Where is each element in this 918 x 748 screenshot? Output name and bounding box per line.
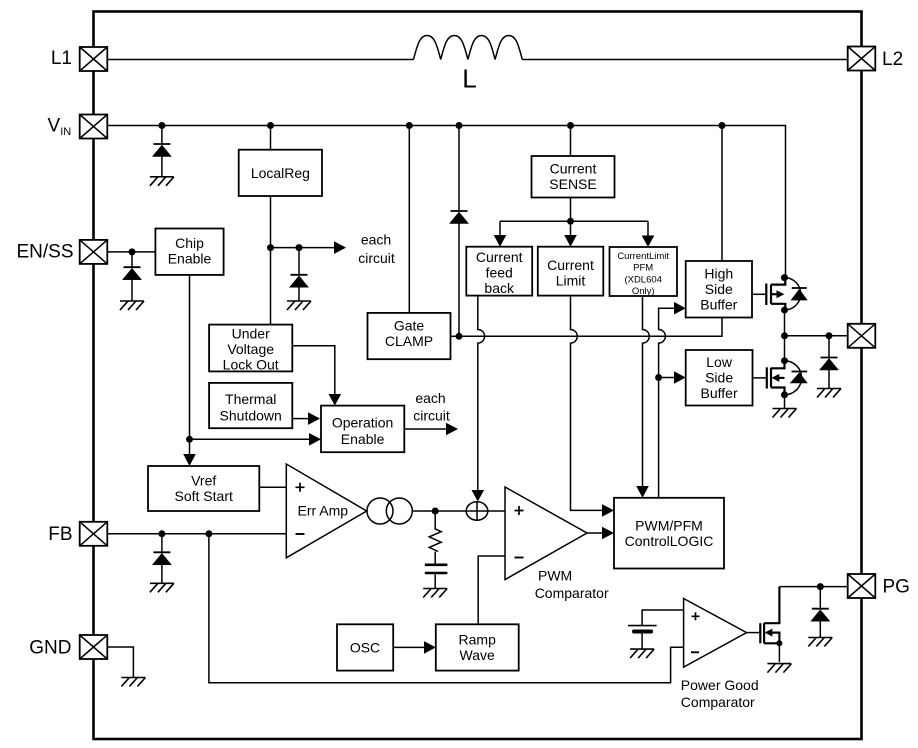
wire D7 to ground	[819, 621, 821, 637]
pin FB	[80, 522, 108, 546]
node EN	[129, 248, 136, 255]
svg-text:SENSE: SENSE	[549, 176, 596, 192]
node VIN-e	[567, 122, 574, 129]
arrow into High Side Buffer	[674, 302, 686, 315]
wire L1 to inductor	[108, 59, 414, 61]
diode D4 boot	[450, 211, 469, 224]
capacitor C1	[425, 565, 448, 573]
node localreg-out	[267, 244, 274, 251]
svg-text:Thermal: Thermal	[225, 391, 276, 407]
transistor Q1 high side	[766, 278, 785, 310]
wire FB sense run	[209, 534, 684, 683]
svg-text:Wave: Wave	[460, 647, 495, 663]
block OSC	[337, 624, 393, 670]
wire CurrentLimit PFM to logic top (hops boot rail)	[643, 296, 650, 486]
arrow into Current feedback	[494, 235, 507, 247]
block High Side Buffer	[686, 261, 752, 318]
svg-text:Buffer: Buffer	[700, 297, 737, 313]
ground G12	[808, 638, 832, 647]
summing node	[466, 502, 488, 520]
arrow into Vref	[183, 454, 196, 466]
wire VIN to HSB top	[721, 126, 723, 262]
svg-text:PG: PG	[883, 577, 910, 598]
wire Current SENSE down	[570, 198, 572, 222]
block PWM/PFM ControlLOGIC	[614, 498, 724, 569]
svg-text:Enable: Enable	[168, 251, 212, 267]
ground G1	[150, 177, 174, 186]
resistor R1	[429, 511, 441, 564]
node chip-enable-branch	[186, 436, 193, 443]
svg-text:Comparator: Comparator	[681, 694, 755, 710]
wire VIN to LocalReg	[270, 126, 272, 150]
svg-text:L1: L1	[51, 48, 72, 69]
svg-text:PWM: PWM	[538, 568, 572, 584]
wire each-circuit feed	[271, 247, 335, 249]
ErrAmp minus	[296, 533, 305, 535]
Q1 source arrow	[777, 290, 785, 298]
ground G3	[120, 301, 144, 310]
wire Vref to ErrAmp plus	[259, 486, 286, 488]
svg-text:Chip: Chip	[175, 235, 204, 251]
wire VIN to Gate CLAMP	[408, 126, 410, 313]
node FB-a	[158, 530, 165, 537]
node Lx-esd	[826, 332, 833, 339]
wire D3 to ground	[131, 280, 133, 301]
node Lx	[781, 332, 788, 339]
wire LocalReg to UVLO	[270, 196, 272, 325]
wire Lx to pin	[785, 335, 848, 337]
svg-text:L: L	[462, 64, 476, 94]
PWM plus	[515, 506, 524, 515]
pin VIN	[80, 115, 108, 139]
arrow into Ramp Wave	[424, 641, 436, 654]
svg-text:Soft Start: Soft Start	[175, 488, 233, 504]
block Thermal Shutdown	[209, 383, 292, 428]
node sense-split	[567, 218, 574, 225]
wire EN ESD branch	[131, 252, 133, 267]
block LocalReg	[239, 150, 322, 196]
node VIN-f	[719, 122, 726, 129]
arrow each-circuit-2	[446, 423, 458, 436]
wire PWM minus to Ramp	[478, 556, 505, 624]
Q1 body diode arc	[785, 278, 801, 310]
ground G5	[817, 389, 841, 398]
svg-text:back: back	[484, 280, 515, 296]
wire summer to PWM comparator	[488, 510, 505, 512]
wire Current Limit to logic (hops boot rail)	[571, 296, 603, 511]
wire PG net	[779, 586, 847, 588]
block Current SENSE	[532, 156, 615, 198]
diode D5 Lx clamp	[820, 358, 839, 371]
arrow into Current Limit	[564, 235, 577, 247]
svg-text:Low: Low	[706, 354, 733, 370]
node localreg-esd	[296, 244, 303, 251]
ground G11	[767, 664, 791, 673]
node Q1 source	[781, 307, 788, 314]
svg-text:Current: Current	[476, 249, 523, 265]
wire CS out	[412, 510, 466, 512]
wire Chip Enable down	[189, 275, 191, 454]
svg-text:PFM: PFM	[633, 263, 653, 274]
wire HSB gate out	[752, 293, 766, 295]
ground G10	[630, 649, 654, 658]
diode D2 localreg clamp	[290, 275, 309, 288]
svg-text:(XDL604: (XDL604	[624, 274, 662, 285]
ground G8	[150, 583, 174, 592]
svg-text:Current: Current	[547, 257, 594, 273]
wire PG plus ref	[642, 610, 684, 626]
svg-text:feed: feed	[486, 265, 513, 281]
wire VIN ESD branch	[161, 126, 163, 145]
node Q1 drain	[781, 274, 788, 281]
svg-text:Operation: Operation	[332, 415, 393, 431]
PG minus	[691, 651, 699, 653]
diode D6 FB clamp	[152, 552, 171, 565]
svg-text:Only): Only)	[632, 286, 655, 297]
svg-text:Limit: Limit	[556, 272, 586, 288]
wire OSC to Ramp	[393, 646, 424, 648]
svg-text:circuit: circuit	[358, 250, 395, 266]
svg-text:Gate: Gate	[394, 318, 425, 334]
pin PG	[848, 574, 876, 598]
block CurrentLimit PFM	[610, 247, 678, 296]
wire FB ESD branch	[161, 534, 163, 553]
wire FB input	[108, 533, 287, 535]
svg-text:each: each	[415, 390, 445, 406]
wire boot rail to HSB	[459, 318, 722, 337]
current source CS1	[367, 498, 393, 524]
wire PG ESD branch	[819, 587, 821, 609]
svg-text:VIN: VIN	[48, 116, 72, 139]
arrow each-circuit-1	[334, 241, 346, 254]
Q1 body diode	[792, 287, 807, 289]
wire Lx ESD branch	[828, 336, 830, 358]
arrow PWM into logic	[602, 527, 614, 540]
op-amp ErrAmp	[286, 464, 366, 558]
wire D6 to ground	[161, 565, 163, 584]
pin Lx	[848, 324, 876, 348]
node VIN-a	[158, 122, 165, 129]
svg-text:Lock Out: Lock Out	[223, 356, 279, 372]
Q3 gate arrow	[765, 629, 773, 637]
wire sense distribution	[500, 221, 648, 235]
svg-text:Ramp: Ramp	[459, 631, 497, 647]
svg-text:High: High	[704, 266, 733, 282]
wire Q1 source to Lx node	[784, 310, 786, 336]
svg-text:Current: Current	[550, 161, 597, 177]
wire PWM output	[587, 532, 602, 534]
svg-text:LocalReg: LocalReg	[251, 165, 310, 181]
svg-text:Buffer: Buffer	[701, 385, 738, 401]
block Under Voltage Lock Out	[209, 325, 292, 372]
node VIN-b	[267, 122, 274, 129]
svg-text:each: each	[361, 232, 391, 248]
wire chip enable to Operation Enable	[190, 438, 310, 440]
block Ramp Wave	[436, 624, 519, 670]
svg-text:Comparator: Comparator	[535, 585, 609, 601]
svg-text:FB: FB	[48, 524, 72, 545]
inductor L	[414, 36, 523, 60]
wire cell to ground	[641, 634, 643, 649]
Q2 gate arrow	[772, 374, 780, 382]
Q2 body diode arc	[785, 361, 802, 395]
wire Q2 source to ground	[784, 395, 786, 409]
ground G9	[121, 678, 145, 687]
Q2 body diode	[792, 371, 808, 373]
wire C1 to ground	[434, 574, 436, 588]
svg-text:CurrentLimit: CurrentLimit	[617, 251, 669, 262]
arrow into CurrentLimit PFM	[642, 236, 655, 248]
svg-text:Under: Under	[232, 325, 270, 341]
node comp	[432, 508, 439, 515]
ground G6	[773, 409, 797, 418]
op-amp PWM comparator	[505, 487, 587, 580]
arrow into OE left 1	[308, 412, 320, 425]
arrow PFM into logic top	[636, 486, 649, 498]
wire Current feedback to summer (hops boot rail)	[478, 296, 485, 490]
diode D1 VIN clamp	[152, 144, 171, 157]
svg-text:Enable: Enable	[341, 431, 385, 447]
wire gate drive from logic to buffers (hops boot rail)	[659, 308, 674, 498]
svg-text:Shutdown: Shutdown	[220, 407, 282, 423]
node Q3 source	[776, 640, 782, 646]
wire LSB gate out	[753, 377, 767, 379]
wire D4 down to boot node	[458, 224, 460, 337]
node boot	[456, 333, 463, 340]
svg-text:circuit: circuit	[413, 408, 450, 424]
svg-text:CLAMP: CLAMP	[385, 333, 433, 349]
diode D7 PG clamp	[811, 609, 830, 622]
block Low Side Buffer	[686, 350, 753, 406]
svg-text:Side: Side	[705, 281, 733, 297]
wire D1 to ground	[161, 157, 163, 177]
svg-text:OSC: OSC	[350, 639, 380, 655]
node Q2 source	[781, 391, 788, 398]
VIN rail wire	[108, 126, 786, 278]
arrow into OE top	[329, 394, 342, 406]
arrow into Low Side Buffer	[674, 371, 686, 384]
node VIN-c	[406, 122, 413, 129]
block Chip Enable	[155, 229, 223, 275]
arrow into OE left 2	[309, 433, 321, 446]
diode D3 EN clamp	[123, 267, 142, 280]
block Operation Enable	[321, 406, 404, 453]
node Q2 drain	[781, 357, 788, 364]
svg-text:Err Amp: Err Amp	[298, 503, 349, 519]
op-amp Power Good comparator	[684, 599, 747, 668]
svg-text:Voltage: Voltage	[227, 341, 274, 357]
wire to LSB arrow	[659, 377, 674, 379]
pin GND	[80, 635, 108, 659]
PWM minus	[515, 557, 524, 559]
wire VIN to Current SENSE	[570, 126, 572, 157]
wire PG comp to Q3 gate	[747, 632, 761, 634]
wire Gate CLAMP out	[451, 335, 460, 337]
pin L2	[848, 47, 876, 71]
wire OE output	[404, 428, 446, 430]
PG plus	[692, 612, 700, 620]
reference cell C2	[628, 625, 657, 627]
node FB-b	[205, 530, 212, 537]
svg-text:Power Good: Power Good	[681, 677, 759, 693]
arrow into summer	[472, 490, 485, 502]
svg-text:GND: GND	[29, 638, 71, 659]
wire TS to OE	[292, 418, 308, 420]
arrow CL into logic	[602, 504, 614, 517]
wire GND pin to ground	[108, 647, 134, 678]
wire VIN boot diode branch	[458, 126, 460, 212]
wire UVLO to OE	[292, 346, 335, 394]
block Vref Soft Start	[148, 466, 259, 511]
svg-text:Side: Side	[705, 370, 733, 386]
ground G2	[287, 301, 311, 310]
node gate-drive-low	[655, 374, 662, 381]
wire to D2	[298, 248, 300, 275]
ground G7	[423, 589, 447, 598]
node VIN-d	[456, 122, 463, 129]
svg-text:PWM/PFM: PWM/PFM	[635, 518, 703, 534]
wire D2 to ground	[298, 287, 300, 301]
pin L1	[80, 47, 108, 71]
ErrAmp plus	[296, 483, 305, 492]
wire D5 to ground	[828, 370, 830, 389]
svg-text:Vref: Vref	[191, 472, 216, 488]
svg-text:ControlLOGIC: ControlLOGIC	[625, 533, 714, 549]
wire Lx to Q2 drain	[784, 336, 786, 361]
svg-text:L2: L2	[882, 49, 903, 70]
wire inductor to L2	[522, 59, 848, 61]
pin EN/SS	[80, 240, 108, 264]
block Current feed back	[466, 247, 532, 296]
node PG-esd	[817, 583, 824, 590]
transistor Q3 open drain	[760, 587, 779, 644]
svg-text:EN/SS: EN/SS	[16, 242, 73, 263]
wire EN/SS to Chip Enable	[108, 251, 156, 253]
transistor Q2 low side	[767, 361, 785, 395]
wire Q3 source to ground	[778, 643, 780, 662]
block Gate CLAMP	[368, 313, 451, 359]
block Current Limit	[538, 247, 604, 296]
